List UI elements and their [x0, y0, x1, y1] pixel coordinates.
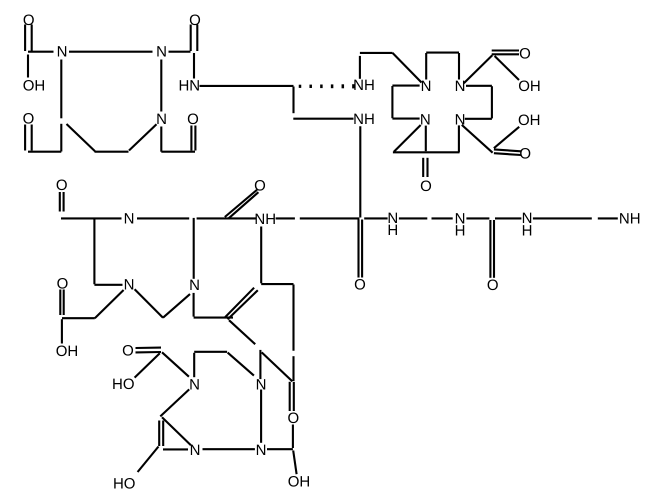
bond N3 down	[160, 127, 162, 152]
bond C11=O11 line a	[489, 220, 491, 278]
bond N7 diagonal	[394, 125, 421, 152]
bond V right to N18	[162, 417, 191, 445]
bond ring2 bridge horizontal	[194, 351, 227, 353]
bond ethylene top	[360, 52, 393, 54]
bond ring2 bridge diagonal	[228, 353, 254, 376]
bond cyclen left bridge top	[392, 85, 419, 87]
bond N15 down	[193, 293, 195, 317]
svg-text:N: N	[455, 112, 466, 129]
svg-text:OH: OH	[518, 112, 541, 129]
bond N14 diagonal left	[95, 290, 124, 318]
bond branch to N14	[94, 284, 122, 286]
bond C12-OH	[61, 319, 63, 343]
bond C6=O6 line b	[494, 153, 521, 155]
svg-text:NH: NH	[619, 211, 641, 228]
bond ring bottom	[95, 151, 129, 153]
svg-text:HO: HO	[113, 476, 136, 493]
bond N7 down	[425, 126, 427, 152]
bond N16 V left	[160, 389, 189, 416]
bond C9=O9 line b	[228, 192, 258, 218]
wire N1 down upper	[60, 60, 62, 119]
bond cyclen left bridge bottom	[392, 118, 419, 120]
bond C10=O10 line b	[361, 220, 363, 278]
svg-text:H: H	[522, 223, 533, 240]
bond backbone to NH9	[197, 217, 257, 219]
bond C17=O17 line a	[136, 347, 162, 349]
bond cyclen right bridge	[491, 86, 493, 118]
bond C15=O15 line b	[293, 382, 295, 411]
svg-text:HO: HO	[112, 376, 135, 393]
bond C17=O17 line b	[136, 351, 162, 353]
bond C12=O12 line a	[59, 290, 61, 316]
svg-text:N: N	[455, 78, 466, 95]
bond C1=O1 line a	[24, 25, 26, 52]
bond cyclen top bridge left	[425, 53, 427, 80]
bond N18-N19 bridge	[203, 448, 255, 450]
bond N3 arm horizontal	[161, 151, 195, 153]
svg-text:H: H	[387, 222, 398, 239]
svg-text:N: N	[156, 111, 167, 128]
bond C13=C14 line a	[228, 290, 258, 319]
svg-text:O: O	[122, 342, 134, 359]
svg-text:O: O	[254, 178, 266, 195]
bond C10=O10 line a	[357, 220, 359, 278]
wire vertical lower	[292, 356, 294, 381]
bond C3=O3 line a	[190, 126, 192, 151]
bond C2 arm horizontal	[28, 151, 61, 153]
bond C9=O9 line a	[225, 190, 257, 217]
bond cyclen left bridge	[391, 86, 393, 118]
svg-text:N: N	[156, 44, 167, 61]
bond C8-N8 backbone	[61, 217, 122, 219]
bond O15-C16	[292, 425, 294, 449]
svg-text:OH: OH	[288, 474, 311, 491]
svg-text:O: O	[56, 177, 68, 194]
svg-text:OH: OH	[23, 78, 46, 95]
svg-text:NH: NH	[353, 111, 375, 128]
bond C4-NH	[193, 53, 195, 79]
svg-text:O: O	[57, 276, 69, 293]
bond C11=O11 line b	[493, 220, 495, 278]
bond ethylene diagonal	[393, 53, 422, 83]
bond CH2-NH	[293, 118, 353, 120]
svg-text:N: N	[189, 277, 200, 294]
bond N15 arm horizontal	[194, 317, 233, 319]
hashed stereo bond	[299, 85, 302, 88]
bond C8=O8 line b	[63, 192, 65, 212]
bond ring diagonal left	[67, 124, 96, 151]
wire vertical upper	[292, 285, 294, 351]
bond diagonal B	[262, 352, 293, 381]
bond N2-N3	[160, 60, 162, 112]
bond corner horizontal	[261, 283, 293, 285]
bond N6 down	[458, 125, 460, 152]
svg-text:H: H	[455, 223, 466, 240]
bond N15 backbone vertical	[193, 218, 195, 279]
bond C3=O3 line b	[194, 126, 196, 151]
bond backbone to C10	[300, 217, 360, 219]
bond N11-C11	[466, 217, 489, 219]
svg-text:N: N	[190, 442, 201, 459]
bond C16-OH	[293, 451, 296, 475]
bond C1-O(H)	[27, 55, 29, 78]
svg-text:O: O	[187, 111, 199, 128]
svg-text:O: O	[354, 277, 366, 294]
bond to N17	[259, 350, 261, 379]
bond backbone to NH13	[598, 217, 618, 219]
bond ring diagonal right	[129, 124, 157, 150]
bond C7=O7 line b	[426, 158, 428, 177]
bond C13 diagonal A	[229, 320, 255, 344]
bond C1=O1 line b	[31, 25, 33, 52]
svg-text:NH: NH	[353, 77, 375, 94]
bond C5=O5 line b	[492, 53, 519, 55]
bond C5-OH	[495, 56, 519, 80]
svg-text:O: O	[519, 145, 531, 162]
svg-text:N: N	[256, 442, 267, 459]
bond N14 diagonal right	[135, 289, 163, 317]
bond NH9 right backbone	[276, 217, 295, 219]
bond N5-C5	[464, 55, 493, 83]
bond HN-CH backbone	[200, 85, 294, 87]
bond ring2 bridge vertical	[193, 353, 195, 377]
svg-text:N: N	[420, 112, 431, 129]
bond cyclen right bridge top	[466, 85, 492, 87]
bond C17-N16	[162, 352, 189, 376]
svg-text:O: O	[23, 12, 35, 29]
bond backbone branch down	[93, 219, 95, 284]
svg-text:O: O	[189, 12, 201, 29]
svg-text:O: O	[487, 277, 499, 294]
bond C15=O15 line a	[289, 382, 291, 411]
bond CH2-N15	[163, 294, 190, 318]
bond C4=O4 line a	[190, 25, 192, 52]
bond cyclen right bridge bottom	[465, 118, 492, 120]
bond C18=C19 line b	[162, 421, 164, 447]
svg-text:HN: HN	[178, 78, 200, 95]
bond C2=O2 line a	[24, 125, 26, 151]
bond backbone to N11	[432, 217, 453, 219]
bond cyclen bottom horizontal	[393, 151, 460, 153]
bond C7=O7 line a	[422, 158, 424, 177]
bond C19-N18	[163, 448, 188, 450]
svg-text:N: N	[124, 277, 135, 294]
bond NH up	[359, 56, 361, 79]
bond N1-N2 chain	[69, 51, 153, 53]
bond C8=O8 line a	[59, 192, 61, 212]
bond N17-N19 vertical	[260, 390, 262, 443]
bond N6-C6	[462, 125, 493, 153]
bond C6-OH	[494, 127, 519, 148]
bond C17-OH	[135, 353, 160, 377]
bond C5=O5 line a	[492, 49, 519, 51]
bond NH9 down	[260, 227, 262, 284]
bond N10 right backbone	[399, 217, 427, 219]
bond NH2 down long	[359, 126, 361, 217]
svg-text:O: O	[287, 410, 299, 427]
svg-text:O: O	[519, 46, 531, 63]
bond C2=O2 line b	[31, 125, 33, 151]
bond C10-N10	[364, 217, 387, 219]
bond C16-N19	[267, 448, 293, 450]
bond C13=C14 line b	[225, 288, 254, 318]
bond C1-N1	[28, 51, 54, 53]
bond N2-C4	[169, 51, 191, 53]
bond N12 right backbone	[533, 217, 592, 219]
svg-text:OH: OH	[56, 343, 79, 360]
bond N8 right backbone	[137, 217, 189, 219]
wire N1 down lower	[60, 124, 62, 152]
bond C4=O4 line b	[196, 25, 198, 52]
bond C11-N12	[495, 217, 521, 219]
svg-text:OH: OH	[518, 78, 541, 95]
svg-text:N: N	[57, 44, 68, 61]
svg-text:N: N	[256, 377, 267, 394]
bond C18=C19 line a	[158, 421, 160, 447]
bond CH down	[292, 87, 294, 114]
svg-text:O: O	[23, 111, 35, 128]
bond cyclen top bridge	[426, 52, 459, 54]
bond C19-OH	[138, 447, 159, 473]
svg-text:N: N	[189, 377, 200, 394]
svg-text:NH: NH	[254, 211, 276, 228]
svg-text:N: N	[124, 210, 135, 227]
bond CH2-C12	[62, 317, 95, 319]
bond C12=O12 line b	[63, 290, 65, 316]
svg-text:O: O	[420, 178, 432, 195]
bond cyclen top bridge right	[458, 53, 460, 80]
bond C6=O6 line a	[494, 149, 521, 151]
svg-text:N: N	[421, 78, 432, 95]
